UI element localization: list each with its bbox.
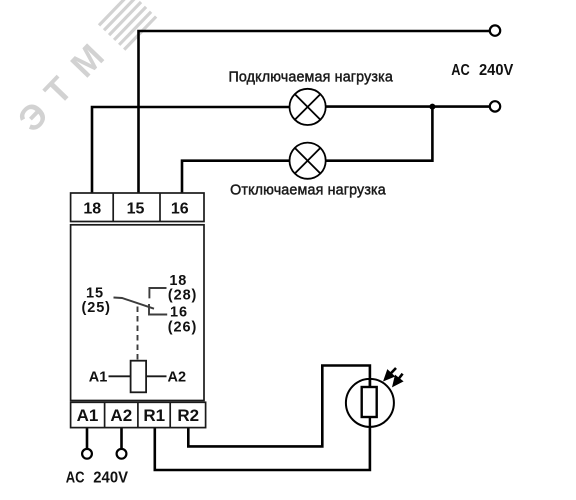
svg-text:AC: AC bbox=[66, 469, 85, 486]
svg-text:A1: A1 bbox=[89, 369, 108, 385]
svg-text:240V: 240V bbox=[479, 62, 514, 79]
svg-text:(28): (28) bbox=[168, 288, 197, 304]
svg-text:R2: R2 bbox=[177, 406, 199, 425]
svg-text:A2: A2 bbox=[110, 406, 132, 425]
svg-text:16: 16 bbox=[170, 305, 188, 321]
svg-text:18: 18 bbox=[83, 201, 101, 218]
svg-text:Отключаемая нагрузка: Отключаемая нагрузка bbox=[230, 183, 386, 199]
svg-text:Подключаемая нагрузка: Подключаемая нагрузка bbox=[228, 70, 393, 86]
svg-text:AC: AC bbox=[451, 62, 470, 79]
svg-text:(25): (25) bbox=[82, 300, 111, 316]
svg-text:(26): (26) bbox=[168, 320, 197, 336]
svg-text:15: 15 bbox=[127, 201, 145, 218]
svg-text:A1: A1 bbox=[77, 406, 99, 425]
svg-text:A2: A2 bbox=[168, 369, 187, 385]
svg-text:240V: 240V bbox=[93, 469, 128, 486]
svg-text:R1: R1 bbox=[143, 406, 165, 425]
svg-text:16: 16 bbox=[171, 201, 189, 218]
